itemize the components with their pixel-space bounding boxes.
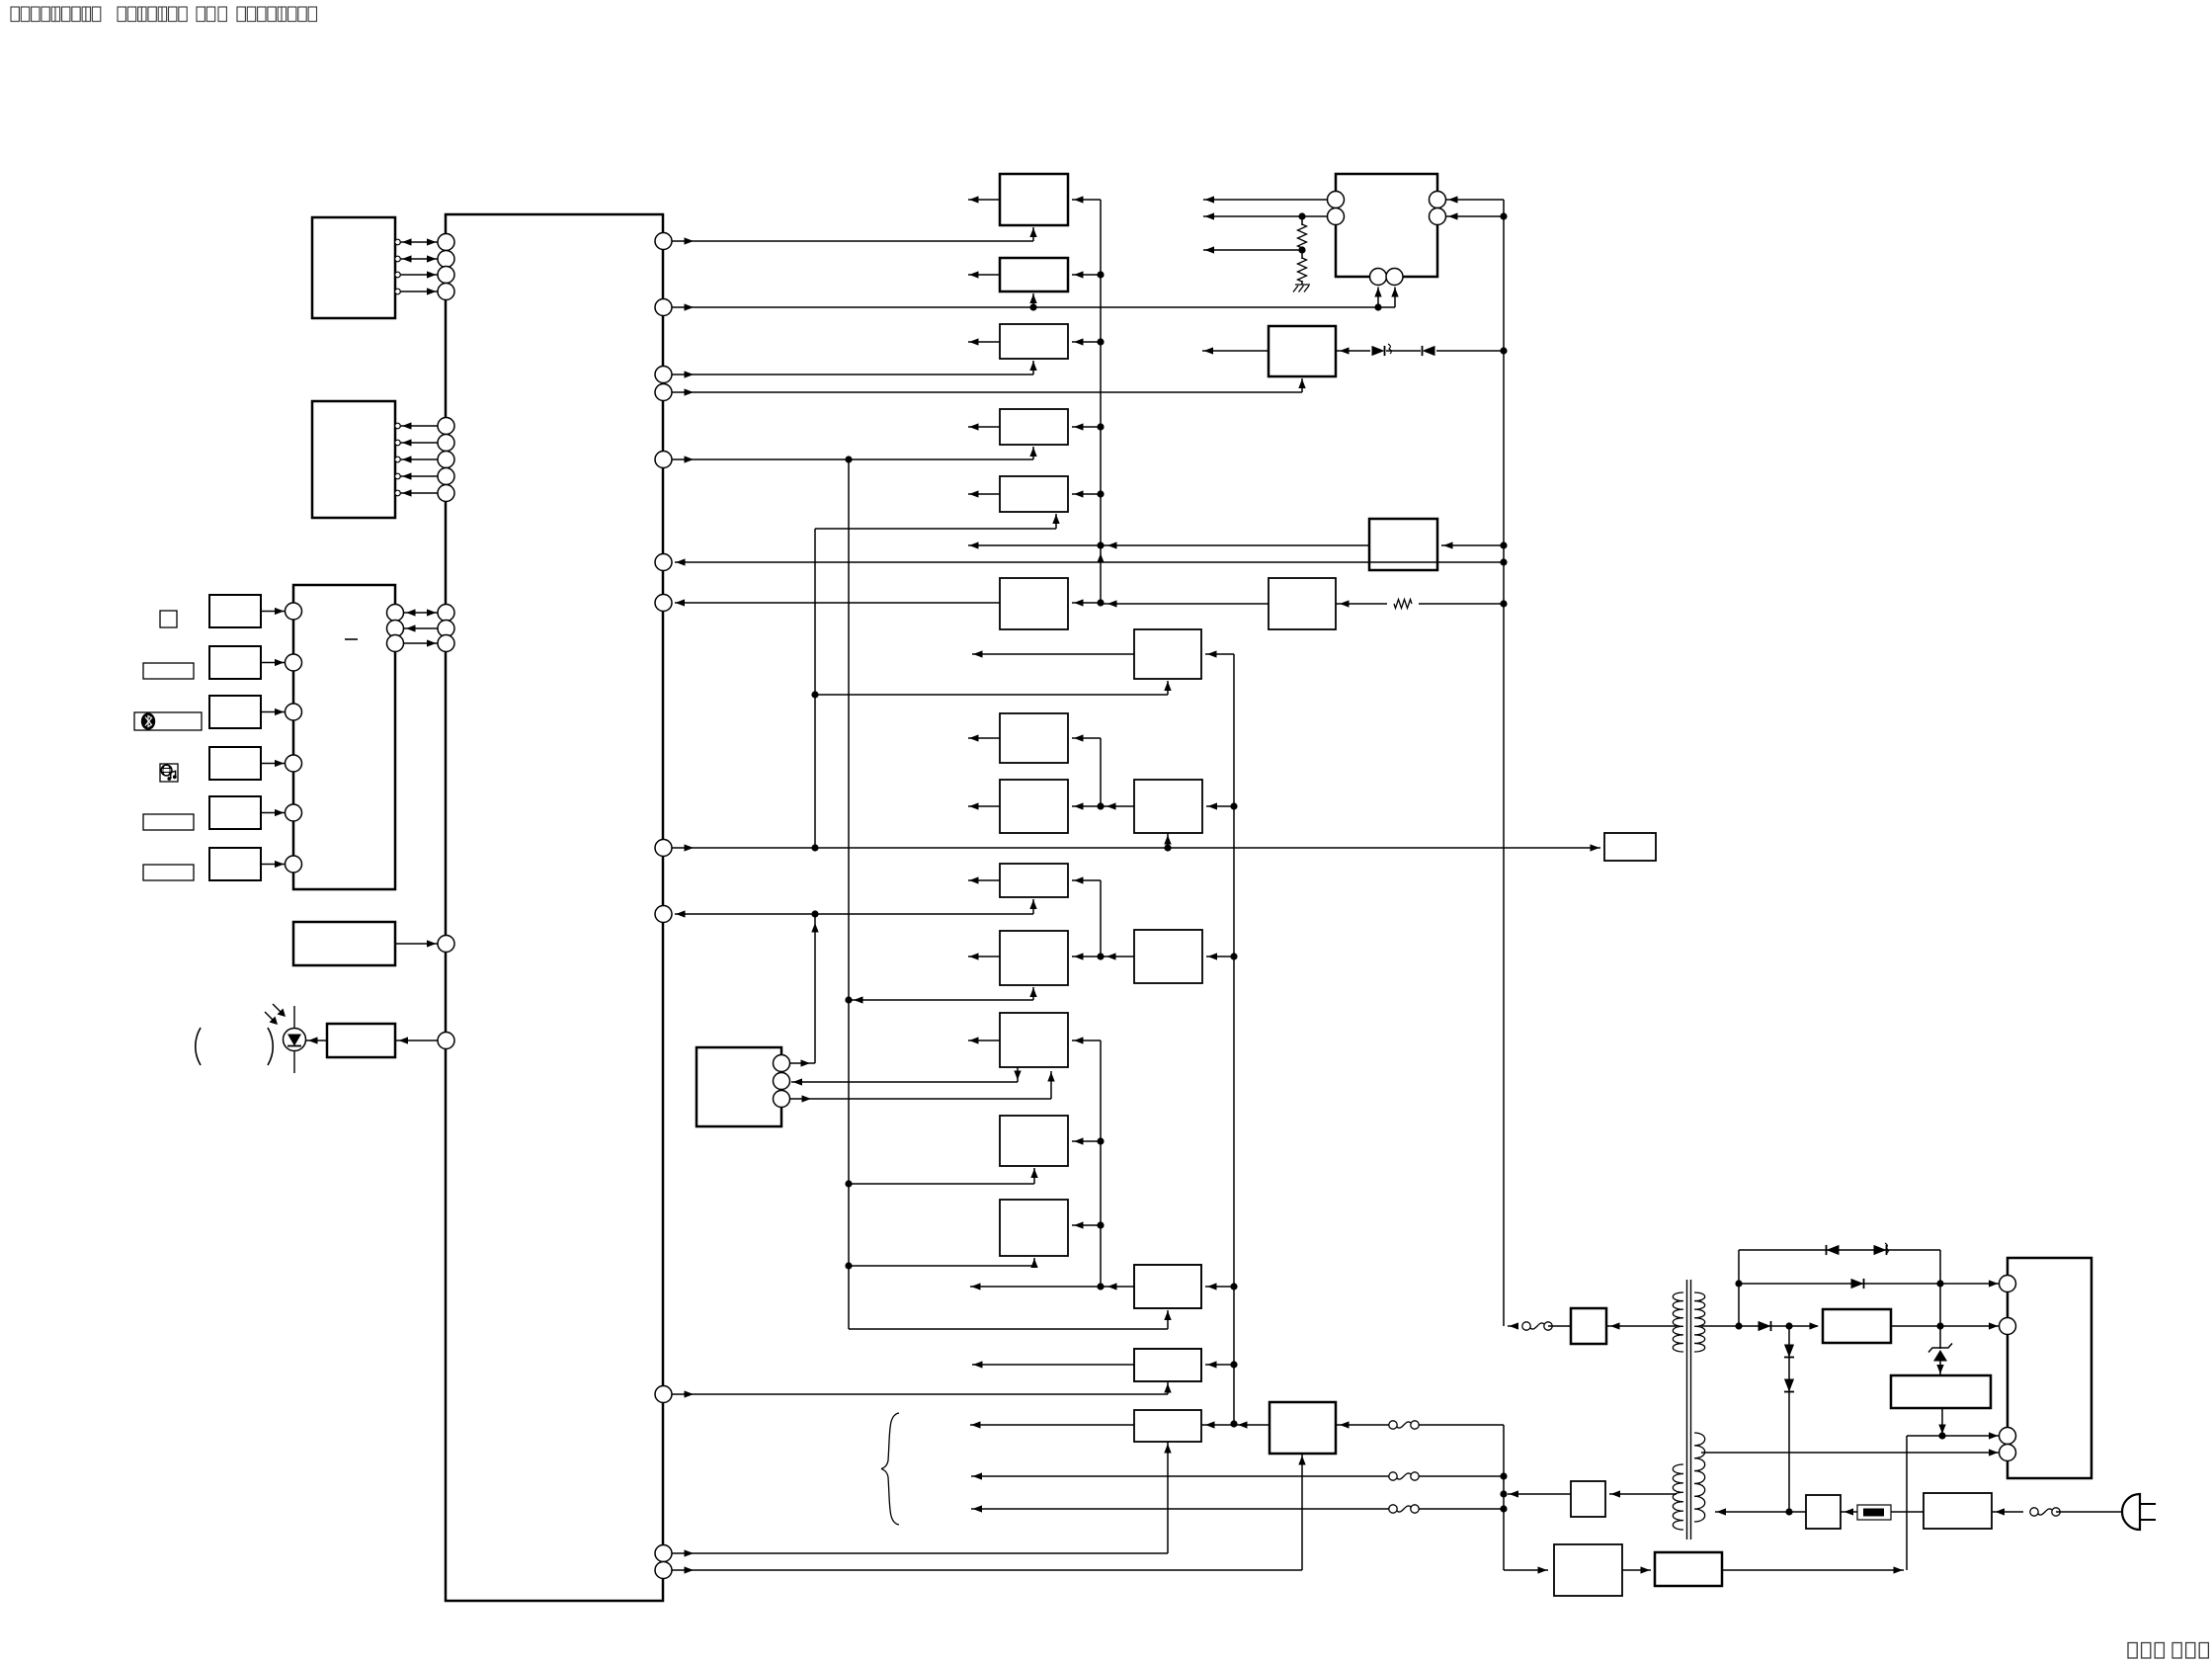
mid rectifier line y=1299 <box>1739 1283 2000 1285</box>
A1 right input wire <box>1072 199 1101 201</box>
IC right pin at y=397 <box>655 384 672 401</box>
protection block P3 <box>1891 1375 1991 1408</box>
BT pin2 wire from A11 <box>791 1081 1018 1083</box>
zener to protection block P3 <box>1939 1326 1941 1349</box>
CN1 pin row 4 wire <box>395 289 401 294</box>
block D output wire up to opto line <box>1722 1569 1904 1571</box>
speaker line connector 2 <box>1389 1472 1397 1480</box>
amp/driver block A10 <box>1000 931 1068 985</box>
CN3 right pin 2 <box>1430 208 1446 225</box>
key switch block 2 <box>209 646 261 679</box>
ground symbol <box>1293 285 1310 292</box>
P2 to speaker-box pin wire <box>1891 1325 2000 1327</box>
page-number placeholder glyphs bottom right <box>2128 1643 2137 1659</box>
M6 left output arrow <box>1202 350 1269 352</box>
display module <box>293 922 395 965</box>
filter block M9 <box>1134 1410 1201 1442</box>
remote commander arcs <box>196 1028 201 1065</box>
IC right pin at y=1572 <box>655 1545 672 1562</box>
bus x=1114 segment A9/A10 <box>1100 880 1102 957</box>
speaker wire L <box>971 1475 1390 1477</box>
CN3 left pin2 output wire with divider <box>1203 215 1328 217</box>
IC pin 397 wire to mute block bottom <box>672 391 1302 393</box>
M3 bottom riser from fan wire <box>1167 833 1169 848</box>
secondary line y=1342 to regulator <box>1701 1325 1739 1327</box>
A3 left output wire <box>968 341 1000 343</box>
IC pin 244 wire to A1 bottom <box>672 240 1033 242</box>
speaker connector block CN3 <box>1336 174 1437 277</box>
AC connector switch <box>2030 1508 2038 1516</box>
M2 left output wire <box>972 653 1134 655</box>
secondary output wire y=1470 <box>1701 1452 2000 1454</box>
bluetooth module BT1 <box>696 1047 781 1126</box>
key cap rectangle 1 <box>143 663 194 679</box>
BT pin1 wire up to IC <box>790 1062 816 1064</box>
amp/driver block A3 <box>1000 324 1068 359</box>
CN3 left pin 1 <box>1328 192 1345 208</box>
loop diode D3 <box>1827 1245 1840 1255</box>
M5 output wire across bus <box>970 1286 1134 1288</box>
speaker block pin 3 <box>2000 1428 2016 1445</box>
M5 bottom feed wire <box>849 1328 1168 1330</box>
muting block M6 <box>1269 326 1336 376</box>
CN2 pin row 1 wire <box>395 423 401 429</box>
primary line connector <box>1522 1322 1530 1330</box>
bus x=1114 segment A11..M5 <box>1100 1040 1102 1287</box>
key switch block 5 <box>209 796 261 829</box>
key row 1 wire <box>261 611 285 613</box>
bus x=1114 segment 1 <box>1100 200 1102 603</box>
block C to block D wire <box>1622 1569 1651 1571</box>
supply bus x=1522 upper <box>1503 200 1505 1326</box>
M5 right input from bus <box>1205 1286 1234 1288</box>
chain diode D7 <box>1784 1345 1794 1358</box>
IC pin 858 wire to fan block <box>672 847 1600 849</box>
bluetooth key cap with logo <box>134 712 202 730</box>
amp/driver block A13 <box>1000 1200 1068 1256</box>
CN3 bottom pin 2 <box>1386 269 1403 286</box>
key switch block 4 <box>209 747 261 780</box>
A8 left output wire <box>968 805 1000 807</box>
divider tap output wire <box>1203 249 1302 251</box>
IC right pin at y=465 <box>655 452 672 468</box>
speaker block pin 2 <box>2000 1318 2016 1335</box>
loop diode D4 (zener) <box>1874 1245 1887 1255</box>
A6 right input wire <box>1072 602 1101 604</box>
IC pin 1572 wire to M9 riser <box>672 1552 1168 1554</box>
amp/driver block A7 <box>1000 713 1068 763</box>
T1 secondary bottom-left winding <box>1673 1464 1683 1530</box>
headphone/control block M7 <box>1134 1349 1201 1381</box>
CN3 bottom pin 1 <box>1370 269 1387 286</box>
IC right pin at y=1411 <box>655 1386 672 1403</box>
A1 left output wire <box>968 199 1000 201</box>
A9 left output wire <box>968 879 1000 881</box>
BT pin3 wire to A11 bottom <box>790 1098 1052 1100</box>
speaker wire R <box>971 1508 1390 1510</box>
IR amp to IC wire <box>395 1040 438 1041</box>
fan block <box>1604 833 1656 861</box>
A5 left output wire <box>968 493 1000 495</box>
key switch block 6 <box>209 848 261 880</box>
speaker block pin 1 <box>2000 1276 2016 1292</box>
B1 output wire across bus <box>968 544 1369 546</box>
divider resistor R a <box>1301 216 1303 225</box>
M3 left wire to A7/A8 bus <box>1101 805 1134 807</box>
CN3 left pin1 output wire <box>1203 199 1328 201</box>
M7 bottom riser <box>1167 1381 1169 1394</box>
CN3 left pin 2 <box>1328 208 1345 225</box>
B1 right input from bus <box>1441 544 1504 546</box>
IC pin 379 wire to A3 bottom <box>672 374 1033 375</box>
P3 output down to opto junction <box>1941 1408 1943 1436</box>
key row 3 wire <box>261 711 285 713</box>
connector CN2 (second left) <box>312 401 395 518</box>
key board module <box>293 585 395 889</box>
IC pin 925 wire from BT riser to A9 bottom <box>675 913 1033 915</box>
A11 left output wire <box>968 1040 1000 1041</box>
IR photo diode D IR <box>293 1006 295 1073</box>
main IC U1 (system control) outline <box>446 214 663 1601</box>
A2 right input wire <box>1072 274 1101 276</box>
vertical bus x=825 upper segment <box>814 529 816 848</box>
A5 bottom feed wire <box>815 528 1056 530</box>
M3 right input from bus <box>1206 805 1234 807</box>
IC right pin at y=610 <box>655 595 672 612</box>
key cap rectangle 3 <box>143 865 194 880</box>
key switch block 3 <box>209 696 261 728</box>
T1 secondary bottom-right winding <box>1694 1433 1705 1522</box>
M6 right wire with protector diodes <box>1336 350 1370 352</box>
amp/driver block A6 <box>1000 578 1068 629</box>
chain diode D8 <box>1784 1379 1794 1392</box>
amp/driver block A8 <box>1000 780 1068 833</box>
supply bus x=1522 lower <box>1503 1425 1505 1570</box>
M2 bottom feed wire <box>815 694 1168 696</box>
M4 right input from bus <box>1206 956 1234 957</box>
IC right pin at y=244 <box>655 233 672 250</box>
A4 right input wire <box>1072 426 1101 428</box>
amp/driver block A12 <box>1000 1116 1068 1166</box>
secondary block P4 <box>1571 1481 1605 1517</box>
power detect block D <box>1655 1552 1722 1586</box>
key row 2 wire <box>261 662 285 664</box>
CN1 pin row 2 wire <box>395 256 401 262</box>
bus corner wire to block C <box>1504 1569 1548 1571</box>
CN2 pin row 2 wire <box>395 440 401 446</box>
regulator block B1 <box>1369 519 1437 570</box>
T1 primary top-left winding <box>1673 1292 1683 1352</box>
speaker line connector 3 <box>1389 1505 1397 1513</box>
M8 bottom riser from IC pin <box>1301 1454 1303 1570</box>
IR diode to amp wire <box>306 1040 327 1041</box>
T1 primary top-right winding <box>1694 1292 1705 1352</box>
IC right pin at y=569 <box>655 554 672 571</box>
key board to IC bus row 1 <box>387 605 404 622</box>
IC pin 311 wire to A2 bottom and connector risers <box>672 306 1395 308</box>
BT pin 3 <box>774 1091 790 1108</box>
rectifier diode D6 <box>1759 1321 1771 1331</box>
double diode chain to AC line <box>1788 1326 1790 1511</box>
AC small block (thermal) <box>1806 1495 1841 1529</box>
speaker group brace <box>881 1413 899 1525</box>
IC pin 1411 wire to M7 riser <box>672 1393 1168 1395</box>
A5 right input wire <box>1072 493 1101 495</box>
CN2 pin row 3 wire <box>395 457 401 462</box>
upper rectifier loop <box>1738 1250 1740 1326</box>
vertical bus x=825 lower segment (BT to IC) <box>814 914 816 1063</box>
display to IC wire <box>395 943 438 945</box>
fuse F1 <box>1857 1505 1891 1520</box>
M4 left wire to A9/A10 bus <box>1101 956 1134 957</box>
key board to IC bus row 2 <box>387 621 404 637</box>
AC plug <box>2122 1494 2140 1530</box>
AC line from transformer to plug <box>1715 1511 1789 1513</box>
BT pin 1 <box>774 1055 790 1072</box>
speaker line wire M8-M9 and output arrow <box>970 1424 1134 1426</box>
CN3 right pin wires from supply bus <box>1446 199 1504 201</box>
IC pin 1589 wire to M8 riser <box>672 1569 1302 1571</box>
IC pin 569 supply wire from right bus <box>675 561 1504 563</box>
IC right pin at y=858 <box>655 840 672 857</box>
CN1 pin row 1 wire <box>395 239 401 245</box>
CN2 pin row 4 wire <box>395 473 401 479</box>
M7 right input from bus <box>1205 1364 1234 1366</box>
A7 left output wire <box>968 737 1000 739</box>
A6 output wire to IC pin <box>675 602 1000 604</box>
speaker line connector 1 <box>1389 1421 1397 1429</box>
M1 left wire to bus <box>1101 603 1269 605</box>
power control block M1 <box>1269 578 1336 629</box>
key cap rectangle 2 <box>143 814 194 830</box>
key row 4 wire <box>261 763 285 765</box>
key board to IC bus row 3 <box>387 635 404 652</box>
key switch block 1 <box>209 595 261 627</box>
M2 right input from bus <box>1205 653 1234 655</box>
standby power block C <box>1554 1544 1622 1596</box>
zener diode D9 <box>1933 1350 1947 1362</box>
A10 bottom feed wire <box>851 999 1033 1001</box>
regulator block P2 <box>1823 1309 1891 1343</box>
amp/driver block A11 <box>1000 1013 1068 1067</box>
A2 left output wire <box>968 274 1000 276</box>
media/music icon key cap <box>160 764 178 782</box>
winding to relay wire <box>1606 1325 1677 1327</box>
bus x=1249 vertical <box>1233 654 1235 1424</box>
control block M4 <box>1134 930 1202 983</box>
amp/driver block A2 <box>1000 258 1068 291</box>
control block M3 <box>1134 780 1202 833</box>
title placeholder glyph row <box>11 7 19 22</box>
amp/driver block A4 <box>1000 409 1068 445</box>
key row 5 wire <box>261 812 285 814</box>
A13 bottom feed wire <box>849 1265 1034 1267</box>
woofer power amp M8 <box>1270 1402 1336 1454</box>
secondary winding tap to P4 <box>1609 1493 1677 1495</box>
incoming IR arrows <box>265 1012 276 1023</box>
primary line from bus to switch <box>1508 1325 1516 1327</box>
AC noise filter block <box>1924 1493 1992 1529</box>
connector CN1 (top left) <box>312 217 395 318</box>
relay block P1 <box>1571 1308 1606 1344</box>
key board label dash <box>345 638 358 640</box>
key row 6 wire <box>261 864 285 866</box>
IC right pin at y=311 <box>655 299 672 316</box>
amp/driver block A5 <box>1000 476 1068 512</box>
M1 right wire with resistor from supply bus <box>1336 603 1387 605</box>
IC pin 465 wire to A4 bottom <box>672 458 1033 460</box>
IC right pin at y=925 <box>655 906 672 923</box>
A3 right input wire <box>1072 341 1101 343</box>
control block M2 <box>1134 629 1201 679</box>
BT pin 2 <box>774 1073 790 1090</box>
power amp / speaker block <box>2007 1258 2091 1478</box>
A4 left output wire <box>968 426 1000 428</box>
M7 left output wire <box>972 1364 1134 1366</box>
CN2 pin row 5 wire <box>395 490 401 496</box>
CN1 pin row 3 wire <box>395 272 401 278</box>
IC right pin at y=379 <box>655 367 672 383</box>
CN3 right pin 1 <box>1430 192 1446 208</box>
A12 bottom feed wire <box>849 1183 1034 1185</box>
divider resistor R b <box>1301 250 1303 259</box>
control block M5 <box>1134 1265 1201 1308</box>
amp/driver block A1 <box>1000 174 1068 225</box>
IC right pin at y=1589 <box>655 1562 672 1579</box>
A10 left output wire <box>968 956 1000 957</box>
bus x=1114 segment A7/A8 <box>1100 738 1102 806</box>
speaker block pin 4 <box>2000 1445 2016 1461</box>
bus x=859 vertical <box>848 459 850 1329</box>
amp/driver block A9 <box>1000 864 1068 897</box>
IR receiver amp block <box>327 1024 395 1057</box>
rectifier diode D5 <box>1851 1279 1864 1289</box>
M9 bottom riser from IC pin <box>1167 1442 1169 1553</box>
transformer T1 core <box>1686 1280 1688 1539</box>
small key cap square <box>160 611 177 627</box>
